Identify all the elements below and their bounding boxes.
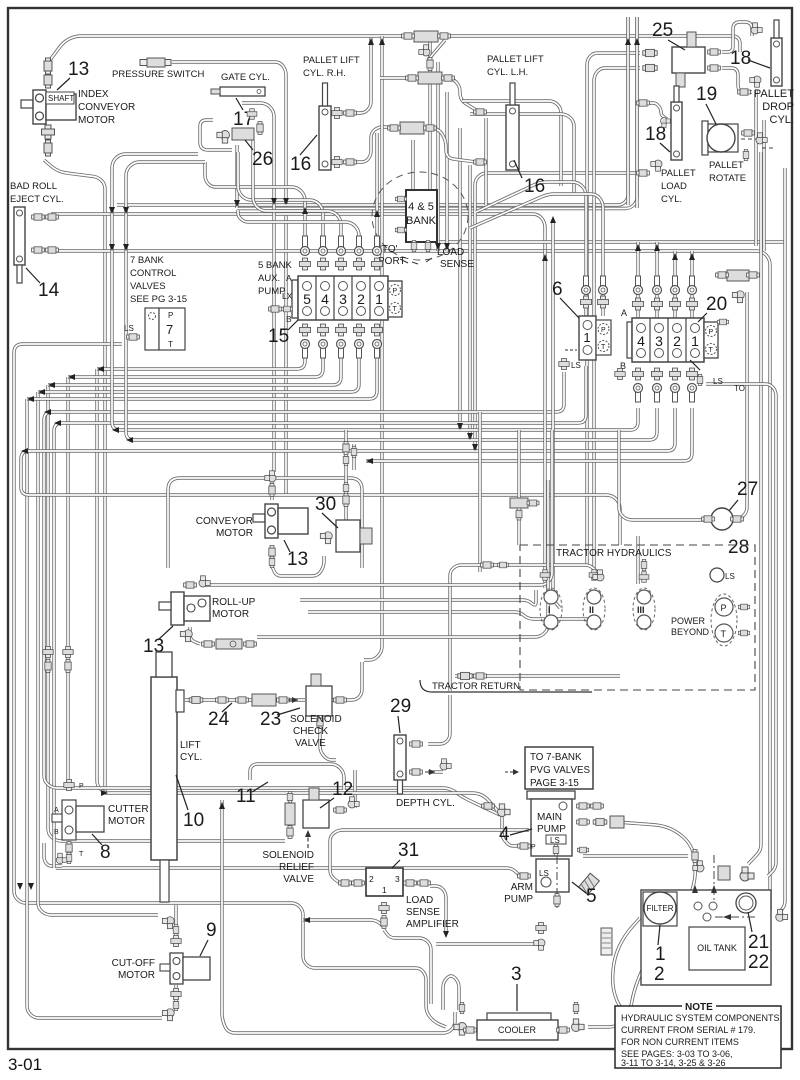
coupler II <box>583 588 605 630</box>
tee fitting right of 20 <box>727 270 749 281</box>
svg-text:LX: LX <box>282 291 293 301</box>
fitting rotate right <box>742 130 755 136</box>
svg-text:3: 3 <box>511 964 522 985</box>
svg-text:OIL TANK: OIL TANK <box>697 943 737 953</box>
lift cylinder 10 <box>151 677 177 860</box>
valve block 25 <box>672 47 705 73</box>
wire vc4 <box>458 128 461 430</box>
wire LS line valve7 <box>14 344 446 1027</box>
coupler III <box>633 588 655 630</box>
svg-text:AUX.: AUX. <box>258 273 280 284</box>
depth cylinder 29 <box>394 735 406 794</box>
aux pump bottom fittings <box>299 324 310 336</box>
arm pump dashdot <box>556 856 558 908</box>
wire eject B <box>51 251 770 910</box>
wire v6 b2 <box>44 372 564 815</box>
cooler <box>487 1013 551 1021</box>
wire th left lines2 <box>308 612 588 619</box>
svg-text:19: 19 <box>696 84 717 105</box>
svg-text:CONVEYOR: CONVEYOR <box>196 516 253 527</box>
wire down H <box>517 430 520 545</box>
wire v20 top 2 <box>655 242 658 318</box>
tee fitting 519 <box>510 498 528 508</box>
ribbed tube component <box>601 928 612 955</box>
wire conveyor up <box>270 478 273 500</box>
wire cutter T stub <box>44 843 62 866</box>
tank small circles <box>694 902 702 910</box>
svg-text:P: P <box>79 783 84 790</box>
motor 13 conveyor <box>253 504 308 538</box>
wire v20 b4 <box>366 408 692 461</box>
tee fitting lh top <box>418 72 442 84</box>
svg-text:AMPLIFIER: AMPLIFIER <box>406 919 459 930</box>
valve 27 circle <box>711 508 733 530</box>
wire v274 <box>242 103 274 472</box>
svg-text:MOTOR: MOTOR <box>118 970 155 981</box>
wire depth mid <box>428 770 443 773</box>
wire conveyor loop <box>168 478 362 568</box>
svg-text:SHAFT: SHAFT <box>48 94 74 103</box>
fitting drop top <box>751 23 762 34</box>
svg-text:SENSE: SENSE <box>440 259 474 270</box>
wire vc7 <box>484 118 487 205</box>
svg-text:I: I <box>548 605 551 615</box>
svg-text:TRACTOR RETURN: TRACTOR RETURN <box>432 681 520 692</box>
svg-text:PALLET: PALLET <box>661 168 696 179</box>
wire 25 right bot <box>722 68 752 92</box>
svg-text:2: 2 <box>654 964 665 985</box>
valve 30 <box>336 520 360 552</box>
svg-text:26: 26 <box>252 149 273 170</box>
svg-text:VALVE: VALVE <box>295 738 326 749</box>
motor 13 index conveyor <box>21 90 76 124</box>
wire 25 left1 <box>587 53 640 565</box>
wire cutoff bottom <box>174 985 177 1008</box>
wire long h208 <box>237 17 637 209</box>
cooler top nuts <box>459 1002 465 1013</box>
gate cylinder <box>211 87 265 96</box>
wire conveyor bottom <box>272 556 324 576</box>
wire aux c2 <box>238 210 359 250</box>
wire v747 <box>740 292 747 519</box>
dashed circle 4-5 bank <box>372 172 468 260</box>
svg-text:BEYOND: BEYOND <box>671 627 710 637</box>
below arm pump fittings <box>536 922 546 933</box>
svg-text:SOLENOID: SOLENOID <box>290 714 342 725</box>
arm pump block <box>536 859 569 892</box>
cooler left elbow <box>454 1023 467 1036</box>
lsa left fitting <box>339 880 352 886</box>
junction wedges <box>109 207 115 214</box>
motor 13 rollup <box>159 592 210 625</box>
wire aux c3 <box>253 140 341 250</box>
svg-text:ROTATE: ROTATE <box>709 173 746 184</box>
svg-text:PALLET: PALLET <box>754 88 794 100</box>
fitting 7 LS <box>127 334 140 340</box>
wire long h242 <box>430 36 786 242</box>
wire v20 b1 <box>112 154 638 430</box>
svg-text:3: 3 <box>339 291 347 307</box>
wire right v5 <box>635 17 638 208</box>
svg-text:10: 10 <box>183 810 204 831</box>
valve 20 bottom ports <box>632 368 643 380</box>
svg-text:ARM: ARM <box>511 882 533 893</box>
svg-text:TRACTOR HYDRAULICS: TRACTOR HYDRAULICS <box>556 548 672 559</box>
svg-text:POWER: POWER <box>671 616 706 626</box>
wire corner h114 <box>470 114 574 194</box>
arm pump left fitting <box>518 873 531 879</box>
svg-text:3: 3 <box>655 333 663 349</box>
svg-text:9: 9 <box>206 920 217 941</box>
svg-text:TO 7-BANK: TO 7-BANK <box>530 752 582 763</box>
wire 25 left2 <box>594 68 640 570</box>
valve 30 top fittings <box>343 494 349 507</box>
fitting tractor return <box>458 672 472 679</box>
wire 23 down <box>320 715 336 760</box>
wire aux b5 <box>97 352 305 369</box>
oil tank outline <box>641 890 771 985</box>
svg-text:3-11 TO 3-14, 3-25 & 3-26: 3-11 TO 3-14, 3-25 & 3-26 <box>621 1058 726 1068</box>
svg-text:PVG VALVES: PVG VALVES <box>530 765 591 776</box>
svg-text:RELIEF: RELIEF <box>279 862 314 873</box>
svg-text:DEPTH CYL.: DEPTH CYL. <box>396 798 455 809</box>
svg-text:7 BANK: 7 BANK <box>130 255 164 266</box>
svg-text:GATE CYL.: GATE CYL. <box>221 72 270 83</box>
svg-text:21: 21 <box>748 932 769 953</box>
svg-text:'TO': 'TO' <box>380 244 398 255</box>
svg-text:18: 18 <box>730 48 751 69</box>
wire gate loop <box>200 120 232 150</box>
svg-text:3-01: 3-01 <box>8 1055 42 1074</box>
aux pump top cross fittings <box>299 258 310 270</box>
fitting plrh bot <box>332 156 342 167</box>
wire aux c4 <box>238 152 323 250</box>
svg-text:A: A <box>621 308 627 318</box>
svg-text:29: 29 <box>390 696 411 717</box>
svg-text:1: 1 <box>655 944 666 965</box>
wire v6 b1 <box>54 366 586 868</box>
svg-text:CYL.: CYL. <box>661 194 682 205</box>
valve 20 PT section <box>704 322 718 358</box>
wire v20 b2 <box>126 162 657 440</box>
svg-text:1: 1 <box>375 291 383 307</box>
svg-text:PALLET LIFT: PALLET LIFT <box>487 54 544 65</box>
valve 20 block <box>627 322 632 358</box>
svg-text:1: 1 <box>583 330 590 345</box>
wire cutoff v <box>174 905 177 935</box>
wire long v382 <box>364 36 382 660</box>
svg-text:20: 20 <box>706 294 727 315</box>
svg-text:4: 4 <box>321 291 329 307</box>
wire rotate dash <box>741 138 756 140</box>
svg-text:LOAD: LOAD <box>437 247 464 258</box>
svg-text:NOTE: NOTE <box>685 1002 713 1013</box>
wire pllh drop <box>408 140 413 198</box>
wire down E <box>619 430 708 520</box>
pallet rotate assembly <box>702 121 708 155</box>
tank top right elbow <box>718 866 730 880</box>
wire lsa down <box>384 930 431 1004</box>
svg-text:CONVEYOR: CONVEYOR <box>78 102 135 113</box>
wire loop11 <box>250 764 344 790</box>
tractor return line <box>420 680 592 692</box>
wire U loop <box>443 976 459 1010</box>
svg-text:PAGE 3-15: PAGE 3-15 <box>530 778 579 789</box>
wire corner h101 <box>462 101 561 186</box>
svg-text:13: 13 <box>68 59 89 80</box>
wire v20 top 3 <box>673 251 676 318</box>
wire lift bottom <box>161 860 164 900</box>
rollup top fitting <box>184 582 197 588</box>
svg-text:P: P <box>709 329 714 336</box>
svg-text:5: 5 <box>303 291 311 307</box>
cutoff top elbow <box>162 917 174 929</box>
cutter T elbow <box>56 853 67 864</box>
svg-text:LS: LS <box>124 324 134 333</box>
cylinder bad roll eject <box>14 207 25 283</box>
svg-text:T: T <box>709 347 714 354</box>
svg-text:2: 2 <box>673 333 681 349</box>
wire down A <box>543 250 546 588</box>
to 7-bank pvg valves box <box>525 747 593 789</box>
svg-text:COOLER: COOLER <box>498 1025 537 1035</box>
wire aux b1 <box>27 352 377 399</box>
svg-text:3: 3 <box>395 874 400 884</box>
wire v6 p2 <box>470 194 603 316</box>
svg-text:CUT-OFF: CUT-OFF <box>112 958 155 969</box>
svg-text:BAD ROLL: BAD ROLL <box>10 181 57 192</box>
svg-text:ROLL-UP: ROLL-UP <box>212 597 256 608</box>
valve 6 LS fitting <box>559 358 569 369</box>
cooler right elbow <box>557 1027 570 1033</box>
wire 30 up2 <box>352 444 355 470</box>
svg-text:P: P <box>168 311 173 320</box>
wire rollup top <box>204 430 552 585</box>
svg-text:31: 31 <box>398 840 419 861</box>
svg-text:VALVES: VALVES <box>130 281 166 292</box>
svg-text:II: II <box>589 605 594 615</box>
cylinder pallet lift rh <box>319 83 331 170</box>
svg-text:INDEX: INDEX <box>78 89 109 100</box>
wire rotate down <box>748 152 761 864</box>
wire tank left curve <box>613 918 640 1016</box>
wire left v3 <box>38 392 158 915</box>
wire aux b3 <box>48 352 341 385</box>
wire load top hose <box>650 103 667 119</box>
svg-text:24: 24 <box>208 709 230 730</box>
svg-text:SENSE: SENSE <box>406 907 440 918</box>
wire aux c5 <box>205 162 305 250</box>
tank right elbow <box>776 909 788 921</box>
wire index motor top <box>50 36 740 60</box>
main pump right fittings <box>577 803 590 809</box>
fitting load left <box>651 160 662 171</box>
wire long h205 <box>117 17 628 205</box>
svg-text:CURRENT FROM SERIAL # 179.: CURRENT FROM SERIAL # 179. <box>621 1025 756 1035</box>
pump left elbows <box>498 804 511 817</box>
tee fitting top line <box>414 31 438 42</box>
valve 6 block <box>579 316 596 360</box>
wire 30 up <box>344 430 347 520</box>
wire mp right big <box>617 822 695 922</box>
svg-text:P: P <box>601 327 606 334</box>
svg-text:14: 14 <box>38 280 60 301</box>
wire th feed F <box>636 536 639 584</box>
wire plrh bottom <box>354 127 392 162</box>
wire lsa bottom feed <box>303 920 384 927</box>
wire index motor bottom <box>44 160 105 793</box>
solenoid relief valve 12 <box>303 800 329 828</box>
wire pllh diag <box>428 40 445 60</box>
wire vc5 <box>468 165 471 440</box>
valve 7 symbol <box>145 308 159 350</box>
tee fitting lh bottom <box>400 122 424 134</box>
fitting drop bottom <box>750 76 761 87</box>
svg-text:CYL. L.H.: CYL. L.H. <box>487 67 528 78</box>
svg-text:22: 22 <box>748 952 769 973</box>
fitting lh ports <box>474 109 487 115</box>
svg-text:6: 6 <box>552 279 563 300</box>
wire rotate down2 <box>780 168 785 912</box>
solenoid check valve 23 <box>306 686 332 716</box>
valve 15 PT section <box>388 281 402 317</box>
svg-text:28: 28 <box>728 537 749 558</box>
svg-text:EJECT CYL.: EJECT CYL. <box>10 194 64 205</box>
svg-text:MOTOR: MOTOR <box>78 115 115 126</box>
fitting 15 LX <box>269 306 282 312</box>
svg-text:SEE PG 3-15: SEE PG 3-15 <box>130 294 187 305</box>
inline fittings 30up <box>343 442 349 455</box>
wire lift top <box>161 660 164 700</box>
ports 4-5 bank <box>395 196 406 202</box>
wire right v4 <box>626 17 629 205</box>
wire left v6 <box>97 369 105 793</box>
filler cap 21 <box>736 893 756 913</box>
svg-text:LIFT: LIFT <box>180 740 201 751</box>
note box <box>615 1006 781 1068</box>
fitting 26 cluster <box>247 109 257 120</box>
svg-text:4 & 5: 4 & 5 <box>408 201 434 213</box>
wire left v2 <box>27 399 162 1018</box>
wire right v1 <box>754 90 757 246</box>
wire depth right <box>428 695 450 744</box>
svg-text:PUMP: PUMP <box>537 824 566 835</box>
svg-text:TO: TO <box>734 384 745 393</box>
svg-text:4: 4 <box>499 824 510 845</box>
svg-text:T: T <box>168 340 173 349</box>
wire arm drain left <box>436 942 534 945</box>
svg-text:BANK: BANK <box>406 215 437 227</box>
wire aux c1 <box>375 133 378 250</box>
svg-text:LOAD: LOAD <box>661 181 687 192</box>
svg-text:PUMP: PUMP <box>504 894 533 905</box>
fitting index bottom <box>42 125 55 139</box>
conveyor fittings <box>269 484 275 497</box>
svg-text:MOTOR: MOTOR <box>216 528 253 539</box>
svg-text:CYL.: CYL. <box>180 752 202 763</box>
svg-text:CUTTER: CUTTER <box>108 804 149 815</box>
wire arm feed <box>56 868 528 876</box>
svg-text:1: 1 <box>382 885 387 895</box>
svg-text:CYL. R.H.: CYL. R.H. <box>303 68 346 79</box>
main pump P port <box>518 843 531 849</box>
wire rollup elbow <box>190 627 200 644</box>
valve bank 15 block <box>292 280 298 318</box>
wire lsa left up <box>330 830 529 883</box>
load sense amplifier box <box>366 868 403 896</box>
wire v20 top 4 <box>690 251 693 318</box>
depth fittings <box>410 741 423 747</box>
inline fittings left verticals <box>43 646 53 657</box>
wire down G <box>478 412 481 572</box>
svg-text:LOAD: LOAD <box>406 895 433 906</box>
cutter motor valve <box>62 800 76 840</box>
wire v20 top 1 <box>636 242 639 318</box>
wire 12 right <box>353 770 356 808</box>
filter <box>643 892 677 926</box>
wire v6 p1 <box>476 182 586 316</box>
wire mp right2 <box>583 854 688 857</box>
svg-text:25: 25 <box>652 20 673 41</box>
svg-text:LS: LS <box>550 836 560 845</box>
svg-text:PALLET LIFT: PALLET LIFT <box>303 55 360 66</box>
svg-text:SOLENOID: SOLENOID <box>262 850 314 861</box>
oil tank box <box>689 927 745 970</box>
svg-text:VALVE: VALVE <box>283 874 314 885</box>
cylinder pallet drop <box>771 20 782 86</box>
coupler feed fittings <box>540 570 550 581</box>
svg-text:LS: LS <box>725 572 735 581</box>
wire th inner h <box>450 565 597 691</box>
svg-text:CHECK: CHECK <box>293 726 328 737</box>
svg-text:4: 4 <box>637 333 645 349</box>
wire 23 right <box>332 662 362 700</box>
svg-text:LS: LS <box>713 377 723 386</box>
wire right v2 <box>762 120 765 251</box>
svg-text:27: 27 <box>737 479 758 500</box>
svg-text:DROP: DROP <box>762 101 794 113</box>
wire rollup bottom <box>257 480 548 637</box>
valve 20 LS TO <box>615 368 625 379</box>
tractor hydraulics dashed box <box>520 545 755 690</box>
svg-text:1: 1 <box>691 333 699 349</box>
svg-text:16: 16 <box>290 154 311 175</box>
wire 26 down <box>235 145 238 208</box>
svg-text:16: 16 <box>524 176 545 197</box>
cutter motor fittings <box>64 779 74 790</box>
svg-text:2: 2 <box>369 874 374 884</box>
wire pllh T2 <box>424 128 476 162</box>
svg-text:15: 15 <box>268 326 289 347</box>
cylinder pallet lift lh <box>506 83 519 170</box>
svg-text:MOTOR: MOTOR <box>108 816 145 827</box>
svg-text:P: P <box>393 288 398 295</box>
pressure switch symbol <box>140 58 171 67</box>
wire pump left1 <box>105 793 497 810</box>
svg-text:11: 11 <box>236 786 256 807</box>
svg-text:III: III <box>637 605 645 615</box>
wire 25 right top <box>722 22 752 52</box>
valve 20 top ports <box>632 298 643 310</box>
wire plrh top <box>354 38 371 113</box>
svg-text:LS: LS <box>539 869 549 878</box>
cutter motor body <box>76 806 104 832</box>
svg-text:T: T <box>721 629 727 639</box>
hatched fitting <box>579 873 600 895</box>
svg-text:PALLET: PALLET <box>709 160 744 171</box>
fitting right of 12 <box>334 807 347 813</box>
wire pump P <box>502 816 517 846</box>
